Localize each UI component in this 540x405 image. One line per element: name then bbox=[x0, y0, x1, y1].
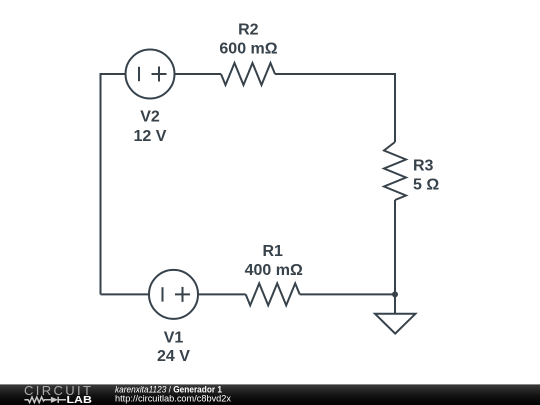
CircuitLab logo bbox=[24, 383, 92, 405]
voltage source V2 bbox=[126, 50, 175, 99]
wire V2 to R2 bbox=[175, 73, 222, 75]
svg-text:R1: R1 bbox=[262, 243, 283, 260]
wire V1 to R1 bbox=[198, 293, 246, 295]
wire R1 to ground junction bbox=[300, 293, 395, 295]
svg-text:24 V: 24 V bbox=[157, 348, 190, 365]
svg-text:http://circuitlab.com/c8bvd2x: http://circuitlab.com/c8bvd2x bbox=[115, 393, 231, 404]
wire R3 to ground junction bbox=[394, 200, 396, 294]
wire left rail bbox=[100, 73, 102, 294]
ground bbox=[375, 314, 415, 334]
footer bar bbox=[0, 384, 540, 405]
resistor R2 bbox=[221, 63, 275, 85]
voltage source V1 bbox=[149, 270, 198, 319]
svg-text:R3: R3 bbox=[413, 158, 434, 175]
resistor R1 bbox=[246, 283, 300, 305]
wire R2 to top-right corner down to R3 bbox=[275, 74, 395, 142]
footer credit text bbox=[115, 385, 231, 405]
node junction at ground bbox=[392, 291, 398, 297]
wire bottom-left corner to V1 bbox=[101, 293, 150, 295]
svg-text:LAB: LAB bbox=[67, 394, 93, 405]
svg-text:R2: R2 bbox=[238, 22, 259, 39]
svg-text:5 Ω: 5 Ω bbox=[413, 177, 439, 194]
ground stem wire bbox=[394, 294, 396, 313]
svg-text:V2: V2 bbox=[140, 109, 160, 126]
svg-text:12 V: 12 V bbox=[134, 128, 167, 145]
wire top-left from V2 to corner bbox=[101, 73, 126, 75]
resistor R3 bbox=[384, 142, 406, 200]
svg-text:V1: V1 bbox=[164, 330, 184, 347]
svg-text:600 mΩ: 600 mΩ bbox=[219, 41, 277, 58]
svg-text:400 mΩ: 400 mΩ bbox=[245, 262, 303, 279]
